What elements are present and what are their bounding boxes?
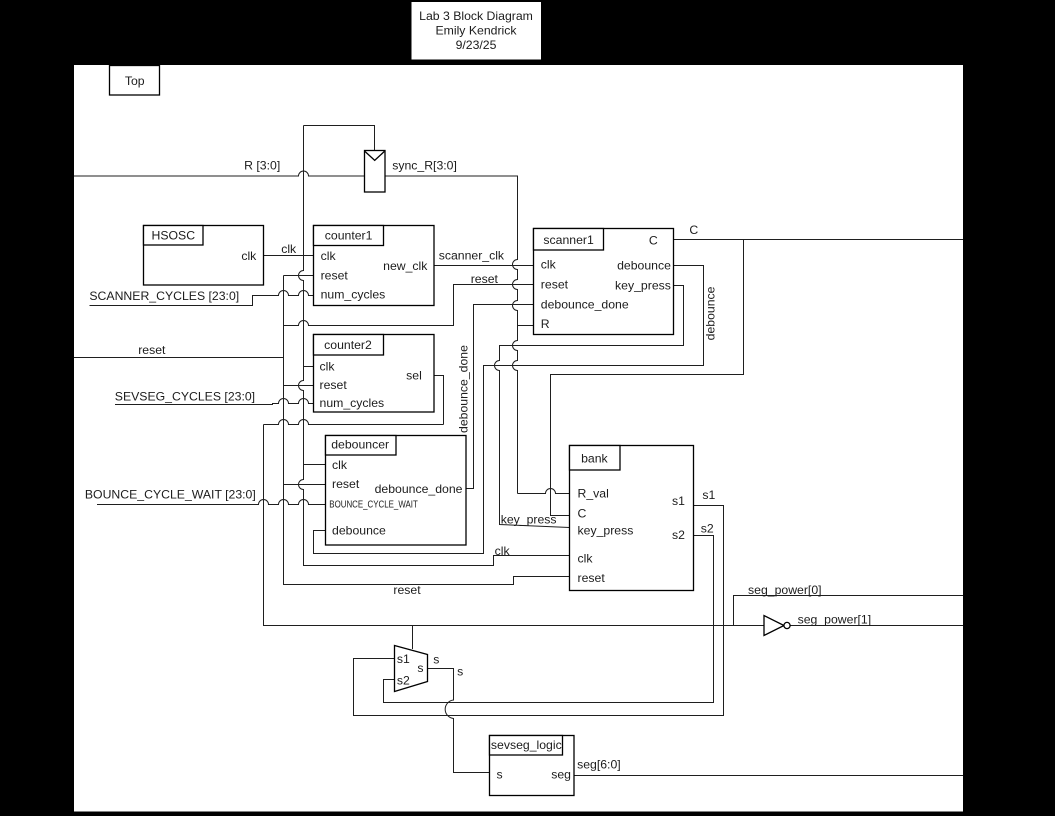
svg-text:9/23/25: 9/23/25: [456, 38, 497, 52]
svg-text:reset: reset: [332, 477, 360, 491]
svg-text:s1: s1: [702, 488, 715, 502]
svg-text:s: s: [457, 664, 463, 678]
svg-text:debounce: debounce: [617, 258, 671, 272]
svg-text:debounce_done: debounce_done: [541, 298, 629, 312]
svg-text:s1: s1: [397, 652, 410, 666]
svg-text:reset: reset: [471, 272, 499, 286]
svg-text:s2: s2: [397, 674, 410, 688]
svg-text:key_press: key_press: [578, 524, 634, 538]
svg-text:debounce: debounce: [704, 286, 718, 340]
svg-text:debouncer: debouncer: [331, 438, 389, 452]
svg-text:key_press: key_press: [501, 513, 557, 527]
svg-text:new_clk: new_clk: [383, 259, 428, 273]
svg-text:counter2: counter2: [324, 338, 372, 352]
svg-text:reset: reset: [578, 571, 606, 585]
svg-text:sel: sel: [406, 368, 422, 382]
svg-text:clk: clk: [321, 249, 337, 263]
svg-text:key_press: key_press: [615, 279, 671, 293]
svg-text:Lab 3 Block Diagram: Lab 3 Block Diagram: [419, 9, 533, 23]
svg-text:BOUNCE_CYCLE_WAIT [23:0]: BOUNCE_CYCLE_WAIT [23:0]: [85, 487, 256, 501]
svg-text:C: C: [689, 223, 698, 237]
svg-text:SCANNER_CYCLES [23:0]: SCANNER_CYCLES [23:0]: [89, 289, 239, 303]
svg-text:debounce: debounce: [332, 524, 386, 538]
svg-text:seg_power[1]: seg_power[1]: [798, 612, 872, 626]
svg-text:SEVSEG_CYCLES [23:0]: SEVSEG_CYCLES [23:0]: [115, 390, 255, 404]
svg-text:s1: s1: [672, 494, 685, 508]
svg-text:seg[6:0]: seg[6:0]: [577, 757, 621, 771]
svg-text:reset: reset: [393, 583, 421, 597]
svg-text:seg: seg: [551, 767, 571, 781]
svg-text:num_cycles: num_cycles: [321, 287, 386, 301]
svg-text:R: R: [541, 317, 550, 331]
svg-text:reset: reset: [138, 343, 166, 357]
svg-text:counter1: counter1: [325, 229, 373, 243]
svg-text:C: C: [649, 233, 658, 247]
svg-text:scanner1: scanner1: [543, 233, 594, 247]
svg-text:reset: reset: [541, 278, 569, 292]
svg-text:Emily Kendrick: Emily Kendrick: [435, 24, 517, 38]
svg-text:clk: clk: [541, 257, 557, 271]
svg-text:s: s: [433, 653, 439, 667]
svg-text:clk: clk: [332, 458, 348, 472]
svg-text:s2: s2: [672, 528, 685, 542]
svg-text:clk: clk: [241, 249, 257, 263]
svg-text:R [3:0]: R [3:0]: [244, 158, 280, 172]
svg-text:C: C: [578, 507, 587, 521]
svg-text:debounce_done: debounce_done: [375, 482, 463, 496]
svg-text:num_cycles: num_cycles: [320, 396, 385, 410]
svg-text:reset: reset: [320, 378, 348, 392]
svg-text:clk: clk: [578, 552, 594, 566]
svg-text:clk: clk: [281, 242, 297, 256]
svg-text:debounce_done: debounce_done: [456, 345, 470, 433]
svg-text:HSOSC: HSOSC: [152, 229, 196, 243]
svg-text:s2: s2: [701, 522, 714, 536]
svg-text:s: s: [417, 661, 423, 675]
svg-text:s: s: [497, 767, 503, 781]
svg-text:sync_R[3:0]: sync_R[3:0]: [392, 158, 457, 172]
svg-text:scanner_clk: scanner_clk: [439, 248, 505, 262]
svg-text:clk: clk: [320, 360, 336, 374]
svg-text:BOUNCE_CYCLE_WAIT: BOUNCE_CYCLE_WAIT: [329, 500, 418, 511]
svg-text:reset: reset: [321, 269, 349, 283]
svg-text:bank: bank: [581, 451, 608, 465]
svg-text:sevseg_logic: sevseg_logic: [491, 738, 562, 752]
svg-text:clk: clk: [495, 544, 511, 558]
svg-text:R_val: R_val: [578, 487, 609, 501]
svg-text:seg_power[0]: seg_power[0]: [748, 583, 822, 597]
svg-text:Top: Top: [125, 74, 145, 88]
